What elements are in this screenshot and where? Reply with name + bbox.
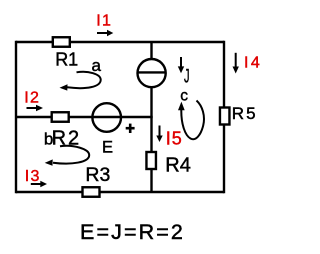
svg-text:I3: I3 — [25, 168, 41, 185]
wire top — [16, 41, 224, 43]
svg-text:b: b — [44, 130, 53, 149]
svg-text:I1: I1 — [96, 13, 112, 30]
mesh arrow a — [60, 56, 102, 91]
svg-text:E=J=R=2: E=J=R=2 — [80, 220, 185, 244]
svg-text:R4: R4 — [165, 155, 191, 177]
wire right — [223, 41, 225, 193]
current source J — [138, 59, 166, 87]
svg-text:R1: R1 — [55, 50, 78, 70]
resistor R2 — [52, 112, 82, 149]
svg-text:a: a — [92, 56, 102, 75]
polarity plus of E — [126, 124, 135, 133]
mesh arrow b — [44, 130, 89, 166]
current arrow J — [178, 57, 184, 73]
svg-text:I4: I4 — [244, 55, 262, 72]
current arrow I3 — [25, 168, 47, 187]
svg-text:I5: I5 — [166, 129, 183, 149]
current arrow I2 — [24, 89, 43, 111]
voltage source E — [92, 103, 121, 132]
current arrow I4 — [233, 53, 263, 74]
svg-text:J: J — [184, 66, 190, 87]
current arrow I5 — [156, 126, 183, 149]
resistor R3 — [83, 164, 111, 197]
resistor R5 — [220, 104, 258, 125]
wire middle horizontal — [16, 116, 153, 118]
svg-text:R5: R5 — [232, 104, 258, 123]
svg-text:c: c — [180, 87, 188, 104]
svg-text:R3: R3 — [85, 164, 110, 186]
resistor R1 — [53, 37, 78, 69]
wire middle vertical — [150, 42, 152, 192]
svg-text:I2: I2 — [24, 89, 40, 106]
current arrow I1 — [96, 13, 113, 37]
wire left — [15, 41, 17, 193]
svg-text:E: E — [102, 139, 113, 157]
mesh arrow c — [178, 87, 204, 139]
resistor R4 — [146, 152, 190, 177]
wire bottom — [16, 191, 224, 193]
